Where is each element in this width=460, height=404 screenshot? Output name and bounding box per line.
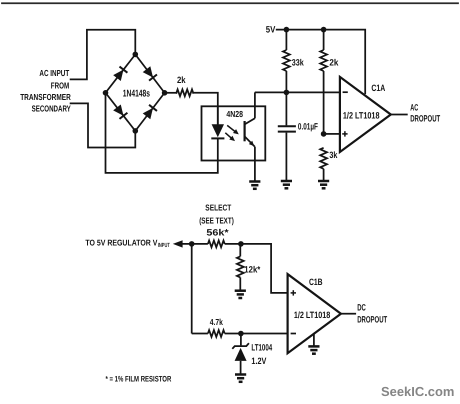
label DC DROPOUT	[357, 303, 387, 325]
svg-text:5V: 5V	[266, 24, 276, 34]
diode D2 (top node to right node)	[143, 66, 157, 81]
diode bridge 1N4148s	[106, 54, 165, 130]
svg-text:* = 1% FILM RESISTOR: * = 1% FILM RESISTOR	[106, 374, 172, 383]
label AC INPUT FROM TRANSFORMER SECONDARY	[20, 68, 71, 114]
node bridge left	[103, 90, 109, 96]
wire 4.7k to C1B minus input	[225, 333, 288, 335]
LED emission arrow 2	[225, 133, 236, 143]
ground (optocoupler emitter)	[249, 182, 260, 189]
wire C1B ground pin	[313, 333, 315, 346]
resistor 2k (horizontal)	[176, 89, 193, 96]
svg-text:DC: DC	[357, 303, 366, 313]
wire C1B output	[341, 313, 356, 315]
svg-text:SECONDARY: SECONDARY	[32, 103, 71, 113]
node bridge top	[133, 52, 139, 58]
label SELECT (SEE TEXT) 56k*	[199, 202, 234, 237]
resistor 3k	[320, 148, 327, 181]
resistor 4.7k	[208, 330, 225, 337]
wire AC input 1 to bridge top node	[71, 30, 136, 80]
plus input glyph C1B	[291, 290, 296, 295]
node zener junction	[238, 331, 244, 337]
LED emission arrow 1	[227, 125, 240, 136]
svg-text:4.7k: 4.7k	[210, 317, 223, 327]
label LT1004 1.2V	[251, 342, 272, 366]
node 12k junction	[238, 241, 244, 247]
node left junction	[189, 241, 195, 247]
wire plus input	[324, 133, 339, 135]
resistor 12k	[237, 244, 244, 290]
zener diode LT1004 1.2V	[232, 334, 249, 375]
op-amp U1A C1A 1/2 LT1018	[340, 77, 391, 152]
bridge arm left-bottom	[106, 93, 136, 131]
svg-text:FROM: FROM	[51, 81, 69, 91]
optocoupler U2 4N28 box	[202, 106, 266, 160]
svg-text:1.2V: 1.2V	[251, 356, 267, 366]
resistor 33k	[283, 30, 290, 93]
ground (C1B)	[308, 346, 319, 353]
svg-text:4N28: 4N28	[226, 109, 243, 119]
svg-text:33k: 33k	[292, 57, 305, 67]
ground (3k)	[318, 181, 329, 188]
plus input glyph C1A	[342, 131, 347, 136]
svg-text:AC: AC	[410, 102, 418, 112]
wire comparator minus input line	[255, 91, 339, 93]
svg-text:TO 5V REGULATOR V: TO 5V REGULATOR V	[85, 237, 157, 247]
svg-text:1/2 LT1018: 1/2 LT1018	[343, 111, 380, 121]
wire main line to 56k	[181, 243, 208, 245]
diode D1 (left node to top node)	[113, 67, 127, 82]
diode D3 (left node to bottom node)	[113, 104, 127, 119]
svg-text:LT1004: LT1004	[251, 342, 272, 352]
svg-text:INPUT: INPUT	[158, 242, 170, 249]
phototransistor of optocoupler	[245, 118, 255, 147]
resistor 56k	[208, 241, 225, 248]
phototransistor emitter arrowhead	[249, 141, 256, 148]
node bridge right	[162, 90, 168, 96]
svg-text:TRANSFORMER: TRANSFORMER	[20, 92, 71, 102]
svg-text:DROPOUT: DROPOUT	[357, 315, 387, 325]
minus input glyph C1A	[343, 91, 348, 93]
node bridge bottom	[133, 128, 139, 134]
svg-text:2k: 2k	[177, 75, 186, 85]
bridge arm top-right	[135, 54, 164, 92]
bridge arm bottom-right	[135, 93, 164, 131]
wire phototransistor collector to comparator minus line	[254, 92, 256, 118]
svg-text:DROPOUT: DROPOUT	[410, 113, 440, 123]
wire bridge left node (DC-) to LED cathode	[106, 93, 218, 173]
ground (12k)	[235, 291, 246, 298]
resistor 2k (threshold divider top)	[320, 30, 327, 134]
label AC DROPOUT	[410, 102, 440, 123]
node 2k/3k plus input junction	[321, 131, 327, 137]
wire 5V rail to op-amp supply	[276, 30, 365, 95]
ground (zener)	[235, 375, 246, 382]
svg-text:SeekIC.com: SeekIC.com	[381, 384, 454, 399]
wire bridge right node to 2k resistor	[165, 92, 177, 94]
node 5V rail / 2k	[321, 27, 327, 33]
ground (capacitor)	[281, 181, 292, 188]
wire left vertical to minus line	[191, 244, 193, 334]
minus input glyph C1B	[291, 333, 296, 335]
wire 56k to C1B plus input	[225, 244, 288, 293]
svg-text:C1A: C1A	[371, 83, 385, 93]
bridge arm left-top	[106, 54, 136, 92]
node 5V rail / 33k	[284, 27, 290, 33]
svg-text:(SEE TEXT): (SEE TEXT)	[199, 215, 234, 225]
svg-text:C1B: C1B	[309, 277, 323, 287]
svg-text:12k*: 12k*	[244, 265, 260, 275]
diode D4 (bottom node to right node)	[143, 105, 157, 120]
op-amp U1B C1B 1/2 LT1018	[288, 274, 341, 353]
node minus line / 33k / capacitor junction	[284, 90, 290, 96]
svg-text:56k*: 56k*	[206, 227, 229, 237]
svg-text:SELECT: SELECT	[205, 202, 232, 212]
LED of optocoupler	[211, 106, 224, 138]
svg-text:1N4148s: 1N4148s	[123, 89, 151, 100]
wire minus line to 4.7k	[192, 333, 208, 335]
capacitor C 0.01uF	[278, 92, 296, 181]
label TO 5V REGULATOR VINPUT	[85, 237, 170, 249]
wire AC input 2 to bridge bottom node	[71, 103, 136, 147]
wire 2k to LED anode	[193, 93, 218, 125]
svg-text:2k: 2k	[329, 57, 339, 67]
svg-text:3k: 3k	[329, 150, 338, 160]
svg-text:AC INPUT: AC INPUT	[39, 68, 69, 78]
arrow to 5V regulator	[173, 240, 183, 247]
svg-text:1/2 LT1018: 1/2 LT1018	[294, 310, 330, 320]
svg-text:0.01µF: 0.01µF	[298, 122, 318, 132]
wire C1A output	[391, 114, 408, 116]
wire phototransistor emitter to ground	[254, 147, 256, 182]
top border rule	[2, 2, 458, 4]
